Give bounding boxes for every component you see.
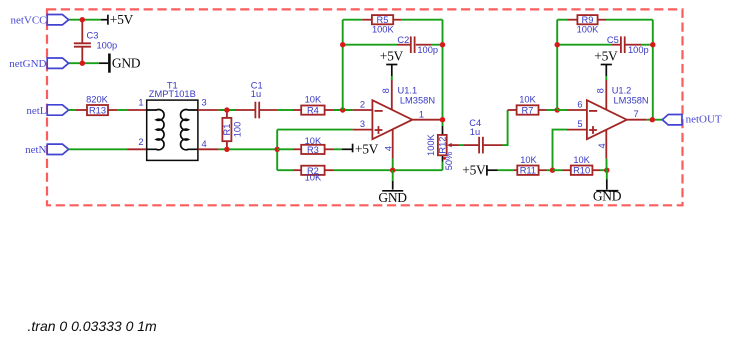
wire R2 to GND row xyxy=(334,169,443,171)
junction netN / R3 xyxy=(275,147,280,152)
svg-text:ZMPT101B: ZMPT101B xyxy=(149,89,196,99)
svg-text:R10: R10 xyxy=(573,166,590,176)
svg-text:R4: R4 xyxy=(307,106,319,116)
svg-text:R1: R1 xyxy=(222,124,232,136)
T1 pin 2 lead xyxy=(127,148,147,150)
wire R12 wiper to C4 xyxy=(459,144,464,146)
resistor R7 xyxy=(517,105,539,115)
svg-text:100p: 100p xyxy=(97,41,118,51)
wire R9 left xyxy=(557,19,567,21)
ground GND below U1.2 xyxy=(593,170,622,204)
svg-text:2: 2 xyxy=(360,99,365,109)
junction R10 / U1.2 pin4 xyxy=(604,168,609,173)
svg-text:8: 8 xyxy=(596,88,606,93)
wire U1.2 pin4 to GND xyxy=(606,159,608,171)
svg-text:10K: 10K xyxy=(305,136,322,146)
svg-text:4: 4 xyxy=(202,139,207,149)
ground GND (top) xyxy=(99,54,110,73)
transformer T1 secondary coil xyxy=(181,110,198,150)
junction R11/R10/pin5 xyxy=(550,168,555,173)
capacitor C1 xyxy=(255,102,259,119)
svg-text:netL: netL xyxy=(26,105,46,117)
resistor R2 leads xyxy=(293,169,334,171)
U1.1 plus input mark xyxy=(375,126,383,134)
U1.1 pin 4 lead xyxy=(392,130,394,159)
U1.2 plus input mark xyxy=(589,126,597,134)
svg-text:10K: 10K xyxy=(305,173,322,183)
svg-text:10K: 10K xyxy=(520,155,537,165)
junction C5 left column xyxy=(555,42,560,47)
svg-text:U1.1: U1.1 xyxy=(398,85,418,95)
junction C2 left column xyxy=(340,42,345,47)
wire R5 right to column xyxy=(402,19,443,21)
power +5V (at R11) xyxy=(487,165,498,175)
resistor R9 leads xyxy=(568,19,607,21)
junction T1 pin3 / R1 xyxy=(224,107,229,112)
U1.2 minus input mark xyxy=(589,110,597,112)
vertical wire feedback left column xyxy=(342,20,344,110)
resistor R10 xyxy=(571,166,593,176)
U1.1 minus input mark xyxy=(375,110,383,112)
svg-text:U1.2: U1.2 xyxy=(612,85,632,95)
wire C4 to R7 corner xyxy=(503,110,508,145)
R12 pin marker dot xyxy=(443,157,446,160)
potentiometer R12 top lead xyxy=(442,126,444,135)
wire pin1 to junction xyxy=(441,119,443,121)
vertical wire feedback left column U1.2 xyxy=(556,20,558,110)
power +5V (at R3) xyxy=(342,144,353,153)
svg-text:GND: GND xyxy=(378,190,407,205)
wire T1 pin3 to C1 xyxy=(219,109,235,111)
power +5V above U1.1 xyxy=(386,65,397,77)
svg-text:7: 7 xyxy=(634,109,639,119)
U1.1 pin 8 lead xyxy=(391,80,393,110)
net label netL xyxy=(26,105,68,117)
wire R3 to +5V xyxy=(334,148,343,150)
resistor R7 leads xyxy=(508,109,547,111)
svg-text:2: 2 xyxy=(138,137,143,147)
svg-text:C3: C3 xyxy=(87,30,99,40)
junction T1 pin4 / R1 xyxy=(224,147,229,152)
wire R10 to GND junction xyxy=(600,169,607,171)
op-amp U1.2 body xyxy=(587,100,627,139)
resistor R13 xyxy=(87,105,108,116)
capacitor C3 leads xyxy=(81,20,83,64)
vertical wire node netN column xyxy=(276,130,278,171)
wire +5V to U1.2 pin8 xyxy=(605,76,607,80)
transformer T1 body xyxy=(147,100,198,160)
wire U1.1 pin4 to GND row xyxy=(392,159,394,171)
svg-text:3: 3 xyxy=(202,97,207,107)
svg-text:+5V: +5V xyxy=(594,48,618,63)
svg-text:.tran 0 0.03333 0 1m: .tran 0 0.03333 0 1m xyxy=(28,318,158,334)
svg-text:1: 1 xyxy=(419,110,424,120)
wire C5 right xyxy=(641,44,653,46)
svg-text:C2: C2 xyxy=(397,35,409,45)
T1 pin 4 lead xyxy=(198,148,219,150)
junction C5 right column xyxy=(650,42,655,47)
vertical wire feedback right column xyxy=(442,20,444,126)
resistor R1 leads xyxy=(226,110,228,149)
power +5V (top) xyxy=(101,15,108,25)
svg-text:1: 1 xyxy=(138,97,143,107)
wire C5 left xyxy=(557,44,612,46)
wire R9 right to column xyxy=(606,19,653,21)
svg-text:+5V: +5V xyxy=(462,163,486,178)
power +5V above U1.2 xyxy=(601,65,612,77)
U1.2 pin 4 lead xyxy=(605,130,607,159)
svg-text:GND: GND xyxy=(593,189,622,204)
U1.2 pin 8 lead xyxy=(605,80,607,110)
svg-text:1u: 1u xyxy=(470,127,480,137)
junction netVCC/C3 xyxy=(80,17,85,22)
wire R12 bottom to GND row xyxy=(442,162,444,171)
wire C2 left xyxy=(343,44,397,46)
resistor R3 leads xyxy=(293,148,334,150)
wire netGND to GND xyxy=(69,62,99,64)
capacitor C5 xyxy=(621,36,625,53)
svg-text:820K: 820K xyxy=(86,95,109,105)
wire R11 to junction xyxy=(547,169,553,171)
svg-text:R12: R12 xyxy=(437,137,447,154)
wire R13 to T1 pin1 xyxy=(118,109,127,111)
svg-text:100p: 100p xyxy=(628,45,649,55)
U1.1 pin 1 lead xyxy=(412,119,440,121)
capacitor C3 xyxy=(74,43,91,46)
wire pin3 row to U1.1 xyxy=(277,129,352,131)
wire netN to T1 pin2 xyxy=(69,148,128,150)
svg-text:netGND: netGND xyxy=(9,58,46,70)
svg-text:+5V: +5V xyxy=(380,48,404,63)
junction GND row U1.1 xyxy=(390,168,395,173)
wire R2 row left xyxy=(277,169,293,171)
net label netGND xyxy=(9,58,68,70)
op-amp U1.1 pin3 lead xyxy=(353,129,373,131)
svg-text:netVCC: netVCC xyxy=(10,15,46,27)
wire netVCC to +5V xyxy=(69,19,101,21)
svg-text:50%: 50% xyxy=(444,152,454,171)
svg-text:GND: GND xyxy=(112,56,141,71)
capacitor C1 leads xyxy=(235,109,278,111)
svg-text:1u: 1u xyxy=(251,89,261,99)
wire C2 right xyxy=(431,44,443,46)
resistor R5 leads xyxy=(362,19,401,21)
svg-text:R11: R11 xyxy=(520,166,536,176)
wire R5 top left xyxy=(343,19,363,21)
U1.2 pin6 lead xyxy=(557,109,587,111)
potentiometer R12 bottom lead xyxy=(442,155,444,161)
svg-text:LM358N: LM358N xyxy=(400,96,435,106)
svg-text:6: 6 xyxy=(577,99,582,109)
op-amp U1.1 body xyxy=(372,100,412,139)
svg-text:netOUT: netOUT xyxy=(686,113,722,125)
junction U1.1 output xyxy=(440,117,445,122)
svg-text:100: 100 xyxy=(233,122,243,138)
resistor R2 xyxy=(301,166,324,176)
svg-text:C5: C5 xyxy=(607,35,619,45)
wire to R3 xyxy=(277,148,293,150)
resistor R13 leads xyxy=(76,109,118,111)
svg-text:5: 5 xyxy=(577,119,582,129)
wire netL to R13 xyxy=(69,109,76,111)
svg-text:100K: 100K xyxy=(426,133,436,156)
resistor R3 xyxy=(301,145,324,155)
wire R7 to U1.2 pin6 xyxy=(547,109,558,111)
svg-text:+5V: +5V xyxy=(355,142,379,157)
svg-text:100p: 100p xyxy=(417,45,438,55)
svg-text:3: 3 xyxy=(360,119,365,129)
svg-text:10K: 10K xyxy=(519,95,536,105)
svg-text:+5V: +5V xyxy=(110,12,134,27)
resistor R10 leads xyxy=(563,169,601,171)
vertical wire feedback right column U1.2 xyxy=(652,20,654,120)
svg-text:10K: 10K xyxy=(573,155,590,165)
wire C1 to R4 xyxy=(278,109,293,111)
junction U1.2 pin6 / feedback xyxy=(555,107,560,112)
svg-text:netN: netN xyxy=(25,144,46,156)
svg-text:100K: 100K xyxy=(372,24,395,34)
wire junction to R10 xyxy=(553,169,563,171)
resistor R1 xyxy=(222,118,232,141)
wire pin7 to netOUT xyxy=(647,119,663,121)
svg-text:4: 4 xyxy=(383,146,393,151)
R12 wiper arrow xyxy=(447,143,459,147)
svg-text:10K: 10K xyxy=(305,95,322,105)
net label netN xyxy=(25,144,68,156)
T1 pin 3 lead xyxy=(198,109,219,111)
capacitor C4 xyxy=(479,137,483,154)
junction R4 / feedback xyxy=(340,107,345,112)
transformer T1 primary coil xyxy=(147,110,164,150)
svg-text:R3: R3 xyxy=(307,145,319,155)
svg-text:LM358N: LM358N xyxy=(614,96,649,106)
wire pin5 row corner xyxy=(553,130,568,171)
svg-text:8: 8 xyxy=(381,88,391,93)
capacitor C2 leads xyxy=(397,44,431,46)
junction U1.2 output xyxy=(650,117,655,122)
resistor R11 leads xyxy=(514,169,547,171)
sheet border dashed xyxy=(47,9,683,205)
wire R4 to U1.1 pin2 xyxy=(334,109,353,111)
capacitor C5 leads xyxy=(612,44,641,46)
resistor R4 xyxy=(301,106,324,116)
resistor R11 xyxy=(517,166,538,176)
T1 pin 1 lead xyxy=(127,109,147,111)
U1.2 pin 7 lead xyxy=(627,119,647,121)
capacitor C2 xyxy=(411,36,415,53)
potentiometer R12 xyxy=(437,135,447,155)
wire T1 pin4 to node xyxy=(219,148,278,150)
U1.2 pin5 lead xyxy=(567,129,587,131)
op-amp U1.1 pin2 lead xyxy=(353,109,373,111)
resistor R5 xyxy=(372,15,393,25)
net label netVCC xyxy=(10,15,68,27)
resistor R4 leads xyxy=(293,109,334,111)
ground GND below U1.1 xyxy=(378,170,407,205)
junction C2 right column xyxy=(440,42,445,47)
wire +5V to R11 xyxy=(498,169,514,171)
junction netGND/C3 xyxy=(80,61,85,66)
resistor R9 xyxy=(577,15,597,25)
net label netOUT xyxy=(662,113,722,125)
wire +5V to U1.1 pin8 xyxy=(391,76,393,80)
capacitor C4 leads xyxy=(464,144,503,146)
svg-text:R13: R13 xyxy=(89,106,106,116)
svg-text:100K: 100K xyxy=(577,24,600,34)
svg-text:R7: R7 xyxy=(522,106,534,116)
